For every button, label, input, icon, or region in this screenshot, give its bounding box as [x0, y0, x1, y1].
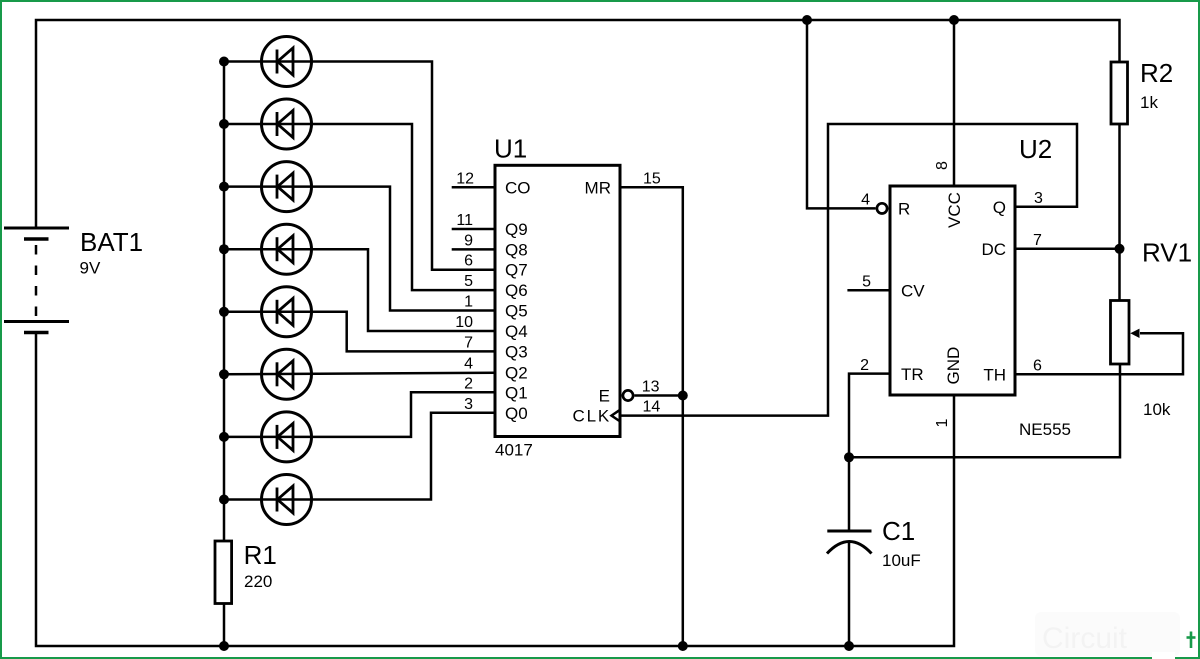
svg-text:5: 5 [862, 274, 871, 291]
svg-text:2: 2 [464, 375, 473, 392]
svg-text:6: 6 [464, 253, 473, 270]
svg-text:7: 7 [464, 334, 473, 351]
svg-text:11: 11 [456, 212, 473, 229]
svg-text:4: 4 [464, 355, 473, 372]
svg-text:Q3: Q3 [505, 342, 528, 361]
svg-text:U1: U1 [494, 134, 527, 164]
svg-text:5: 5 [464, 273, 473, 290]
svg-text:C1: C1 [882, 516, 915, 546]
svg-text:Q7: Q7 [505, 261, 528, 280]
svg-text:RV1: RV1 [1142, 238, 1192, 268]
svg-text:Q: Q [993, 198, 1006, 217]
svg-text:CLK: CLK [573, 407, 611, 426]
svg-text:10uF: 10uF [882, 551, 921, 570]
svg-text:Q6: Q6 [505, 281, 528, 300]
svg-text:1: 1 [464, 294, 473, 311]
svg-text:Q0: Q0 [505, 404, 528, 423]
svg-text:Q1: Q1 [505, 383, 528, 402]
svg-text:R2: R2 [1140, 58, 1173, 88]
svg-text:4017: 4017 [495, 441, 533, 460]
svg-text:8: 8 [934, 161, 951, 170]
svg-text:E: E [599, 387, 610, 406]
svg-text:CO: CO [505, 178, 531, 197]
svg-text:12: 12 [456, 170, 474, 187]
svg-text:220: 220 [244, 572, 272, 591]
svg-text:4: 4 [861, 192, 870, 209]
svg-text:GND: GND [944, 347, 963, 385]
svg-text:10k: 10k [1143, 400, 1171, 419]
svg-text:6: 6 [1033, 358, 1042, 375]
svg-text:15: 15 [643, 170, 661, 187]
svg-text:1: 1 [934, 419, 951, 428]
svg-text:1k: 1k [1140, 93, 1158, 112]
svg-text:9V: 9V [80, 259, 101, 278]
svg-text:3: 3 [1034, 190, 1043, 207]
svg-text:R1: R1 [244, 540, 277, 570]
svg-text:Q8: Q8 [505, 240, 528, 259]
svg-text:CV: CV [901, 282, 925, 301]
svg-text:R: R [898, 200, 910, 219]
svg-text:TR: TR [901, 365, 924, 384]
svg-text:9: 9 [464, 232, 473, 249]
svg-text:BAT1: BAT1 [80, 227, 143, 257]
svg-text:TH: TH [983, 366, 1006, 385]
svg-text:Q5: Q5 [505, 302, 528, 321]
svg-text:2: 2 [860, 357, 869, 374]
svg-text:VCC: VCC [945, 192, 964, 228]
svg-text:13: 13 [642, 379, 660, 396]
svg-text:10: 10 [455, 314, 473, 331]
svg-text:U2: U2 [1019, 134, 1052, 164]
svg-text:MR: MR [585, 178, 611, 197]
svg-text:3: 3 [464, 396, 473, 413]
svg-text:7: 7 [1033, 232, 1042, 249]
svg-text:Q4: Q4 [505, 322, 528, 341]
svg-text:14: 14 [643, 399, 661, 416]
svg-text:DC: DC [981, 240, 1006, 259]
svg-text:Q2: Q2 [505, 363, 528, 382]
svg-text:NE555: NE555 [1019, 420, 1071, 439]
svg-text:Q9: Q9 [505, 220, 528, 239]
svg-text:Circuit: Circuit [1042, 622, 1128, 655]
